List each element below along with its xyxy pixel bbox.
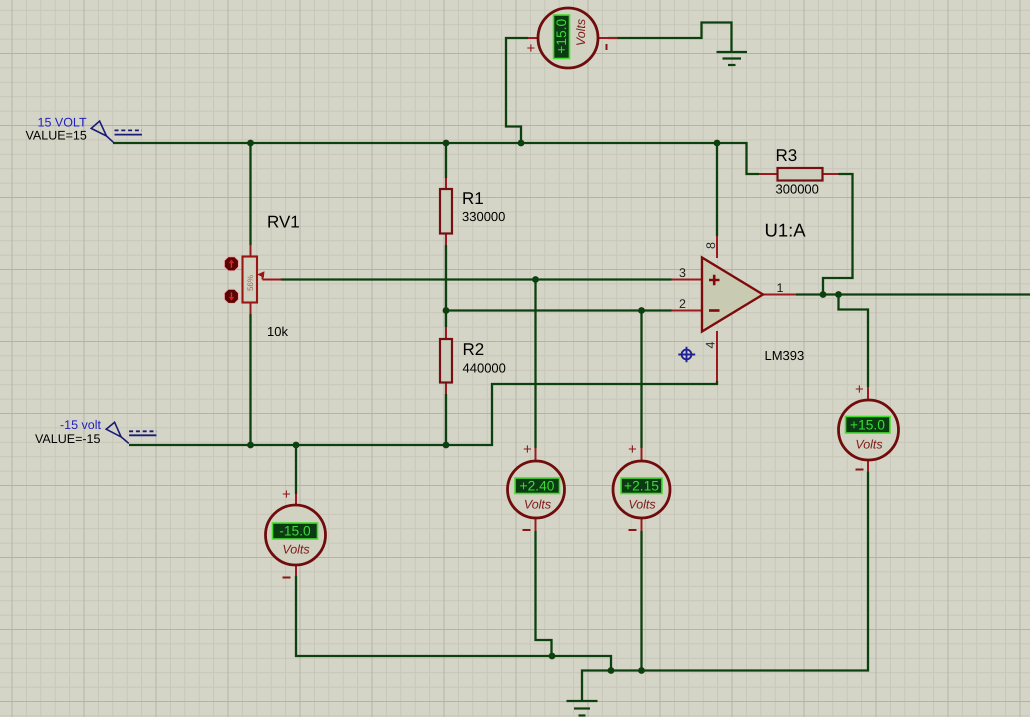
svg-text:1: 1 [777,281,784,295]
svg-text:+: + [523,441,532,458]
svg-text:330000: 330000 [462,209,505,224]
svg-text:+: + [855,381,864,398]
svg-text:Volts: Volts [574,19,588,46]
svg-text:+: + [527,40,536,57]
svg-text:8: 8 [704,242,718,249]
svg-text:Volts: Volts [524,498,551,512]
svg-text:VALUE=15: VALUE=15 [26,129,87,143]
svg-text:R2: R2 [463,340,485,359]
svg-text:300000: 300000 [776,182,819,197]
svg-text:VALUE=-15: VALUE=-15 [35,432,100,446]
svg-text:56%: 56% [246,275,255,291]
svg-text:+15.0: +15.0 [554,19,569,54]
svg-text:Volts: Volts [855,438,882,452]
svg-text:LM393: LM393 [765,348,805,363]
svg-text:RV1: RV1 [267,213,300,232]
svg-text:+15.0: +15.0 [850,418,885,433]
svg-text:4: 4 [704,342,718,349]
svg-text:-15.0: -15.0 [279,524,311,539]
svg-text:-15 volt: -15 volt [60,418,102,432]
svg-text:Volts: Volts [628,498,655,512]
svg-text:3: 3 [679,266,686,280]
svg-text:U1:A: U1:A [765,220,807,241]
svg-text:+: + [282,486,291,503]
svg-text:2: 2 [679,297,686,311]
svg-text:R1: R1 [462,189,484,208]
svg-text:15 VOLT: 15 VOLT [38,116,87,130]
svg-text:10k: 10k [267,324,288,339]
svg-text:+2.40: +2.40 [520,479,555,494]
svg-text:+: + [628,441,637,458]
svg-text:+2.15: +2.15 [624,479,659,494]
svg-text:Volts: Volts [282,543,309,557]
svg-text:440000: 440000 [463,361,506,376]
svg-text:R3: R3 [776,146,798,165]
